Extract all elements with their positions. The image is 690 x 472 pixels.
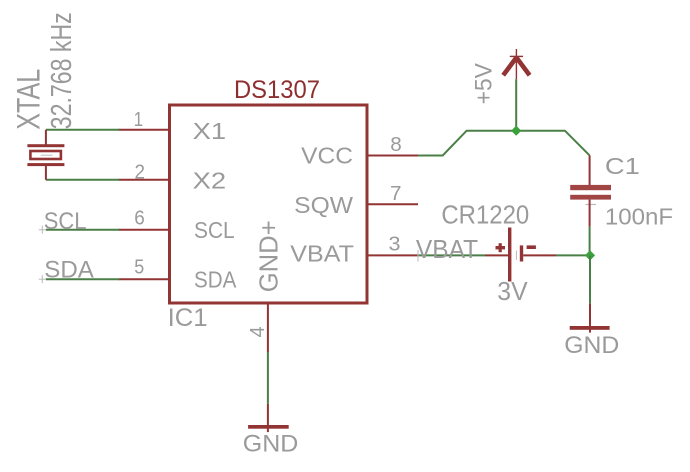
pin label VBAT: [290, 241, 354, 267]
svg-text:1: 1: [134, 109, 144, 131]
pin label VCC: [301, 143, 353, 169]
svg-text:SDA: SDA: [194, 267, 237, 293]
pin stub 8: [366, 155, 418, 157]
junction at +5V node: [511, 126, 521, 136]
label GND bottom: [243, 430, 299, 457]
capacitor C1 lead bottom: [589, 200, 591, 227]
svg-text:CR1220: CR1220: [441, 200, 529, 230]
label DS1307: [234, 76, 320, 104]
label 3V: [497, 276, 528, 306]
svg-text:DS1307: DS1307: [234, 76, 320, 104]
wire X2 to crystal: [46, 179, 120, 181]
pin label GND+ (rotated): [253, 220, 283, 292]
pin stub 4: [267, 304, 269, 352]
pin number 6: [134, 207, 145, 229]
pin stub 2: [119, 179, 171, 181]
svg-text:X1: X1: [193, 118, 227, 144]
label +5V (rotated): [471, 63, 498, 104]
label 32.768 kHz (rotated): [46, 12, 78, 129]
svg-text:VCC: VCC: [301, 143, 353, 169]
battery plate negative (short): [520, 245, 523, 261]
crystal plate top: [27, 144, 64, 147]
svg-text:6: 6: [134, 207, 145, 229]
wire pin4 to GND: [267, 352, 269, 404]
junction at VBAT/C1/GND node: [585, 250, 595, 260]
crystal lead bottom: [45, 164, 47, 180]
svg-text:7: 7: [390, 183, 402, 205]
wire C1 to junction: [589, 227, 591, 256]
capacitor C1 lead top: [589, 155, 591, 185]
wire junction to GND: [589, 255, 591, 303]
svg-text:3: 3: [389, 233, 401, 255]
label VBAT net: [416, 234, 478, 264]
pin number 4 (rotated): [247, 326, 269, 337]
capacitor C1 plate bottom: [570, 195, 611, 200]
label cross VBAT origin: [417, 250, 419, 262]
svg-text:XTAL: XTAL: [10, 69, 46, 130]
pin label SCL: [194, 217, 235, 243]
label SDA net: [44, 256, 94, 283]
pin number 5: [134, 257, 144, 279]
pin stub 7: [366, 203, 418, 205]
supply +5V symbol: [503, 49, 529, 79]
svg-text:5: 5: [134, 257, 144, 279]
pin stub 6: [119, 229, 171, 231]
crystal Q1 XTAL lead top: [45, 130, 47, 146]
battery plus mark: [496, 243, 506, 252]
battery minus mark: [527, 245, 536, 249]
svg-text:3V: 3V: [497, 276, 528, 306]
pin label X2: [193, 168, 227, 194]
pin label SQW: [294, 192, 353, 218]
label cross SDA origin: [39, 275, 46, 283]
label C1: [605, 153, 640, 179]
pin stub 1: [119, 129, 171, 131]
label CR1220: [441, 200, 529, 230]
ground symbol bottom lead: [267, 404, 269, 432]
wire VCC run: [418, 131, 590, 156]
svg-text:+5V: +5V: [471, 63, 498, 104]
crystal body: [30, 151, 61, 159]
capacitor C1 plate top: [570, 185, 611, 190]
svg-text:C1: C1: [605, 153, 640, 179]
svg-text:4: 4: [247, 326, 269, 337]
wire +5V drop: [515, 79, 517, 131]
battery G1 lead left: [485, 254, 508, 256]
ground symbol right lead: [589, 304, 591, 333]
svg-text:IC1: IC1: [168, 304, 208, 332]
pin number 1: [134, 109, 144, 131]
pin number 2: [135, 162, 146, 184]
label SCL net: [44, 208, 87, 235]
wire SCL: [46, 229, 120, 231]
battery pin cross: [515, 251, 517, 260]
pin number 7: [390, 183, 402, 205]
svg-text:SCL: SCL: [194, 217, 235, 243]
label IC1: [168, 304, 208, 332]
crystal plate bottom: [27, 163, 64, 166]
wire VBAT left: [418, 254, 485, 256]
svg-text:GND+: GND+: [253, 220, 283, 292]
svg-text:X2: X2: [193, 168, 227, 194]
svg-text:GND: GND: [564, 332, 619, 359]
pin stub 5: [119, 278, 171, 280]
label GND right: [564, 332, 619, 359]
label cross SCL origin: [39, 226, 46, 234]
pin number 3: [389, 233, 401, 255]
wire battery to junction: [556, 254, 590, 256]
svg-text:100nF: 100nF: [605, 204, 673, 230]
svg-text:SCL: SCL: [44, 208, 87, 235]
pin stub 3: [366, 254, 418, 256]
pin number 8: [390, 134, 402, 156]
capacitor C1 pin cross: [585, 204, 596, 206]
svg-text:VBAT: VBAT: [416, 234, 478, 264]
svg-text:SQW: SQW: [294, 192, 353, 218]
pin label X1: [193, 118, 227, 144]
IC U1 box IC1 DS1307: [170, 105, 368, 303]
label XTAL (rotated): [10, 69, 46, 130]
battery plate positive (long): [508, 228, 511, 282]
battery lead right: [523, 254, 556, 256]
ground symbol bottom bar: [248, 425, 289, 429]
svg-text:32.768 kHz: 32.768 kHz: [46, 12, 78, 129]
svg-text:GND: GND: [243, 430, 299, 457]
label 100nF: [605, 204, 673, 230]
svg-text:8: 8: [390, 134, 402, 156]
svg-text:VBAT: VBAT: [290, 241, 354, 267]
ground symbol right bar: [570, 326, 610, 330]
crystal origin mark: [41, 154, 53, 156]
svg-text:SDA: SDA: [44, 256, 94, 283]
pin label SDA: [194, 267, 237, 293]
wire X1 to crystal: [46, 129, 120, 131]
wire SDA: [46, 278, 120, 280]
